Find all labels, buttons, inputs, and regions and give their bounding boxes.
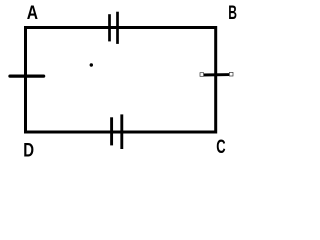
svg-text:A: A [27,1,38,23]
tick mark 2 on side DC [120,114,123,149]
svg-text:B: B [228,2,237,24]
tick mark on side AD [10,74,44,77]
interior dot [90,63,93,66]
rectangle ABCD [26,28,216,133]
tick mark on side BC [202,73,231,76]
svg-text:C: C [216,135,225,157]
handle square at right end of BC tick [229,72,233,76]
tick mark 2 on side AB [116,12,119,44]
handle square at left end of BC tick [200,73,204,77]
svg-text:D: D [23,138,34,160]
tick mark 1 on side DC [110,117,113,145]
tick mark 1 on side AB [108,14,111,41]
